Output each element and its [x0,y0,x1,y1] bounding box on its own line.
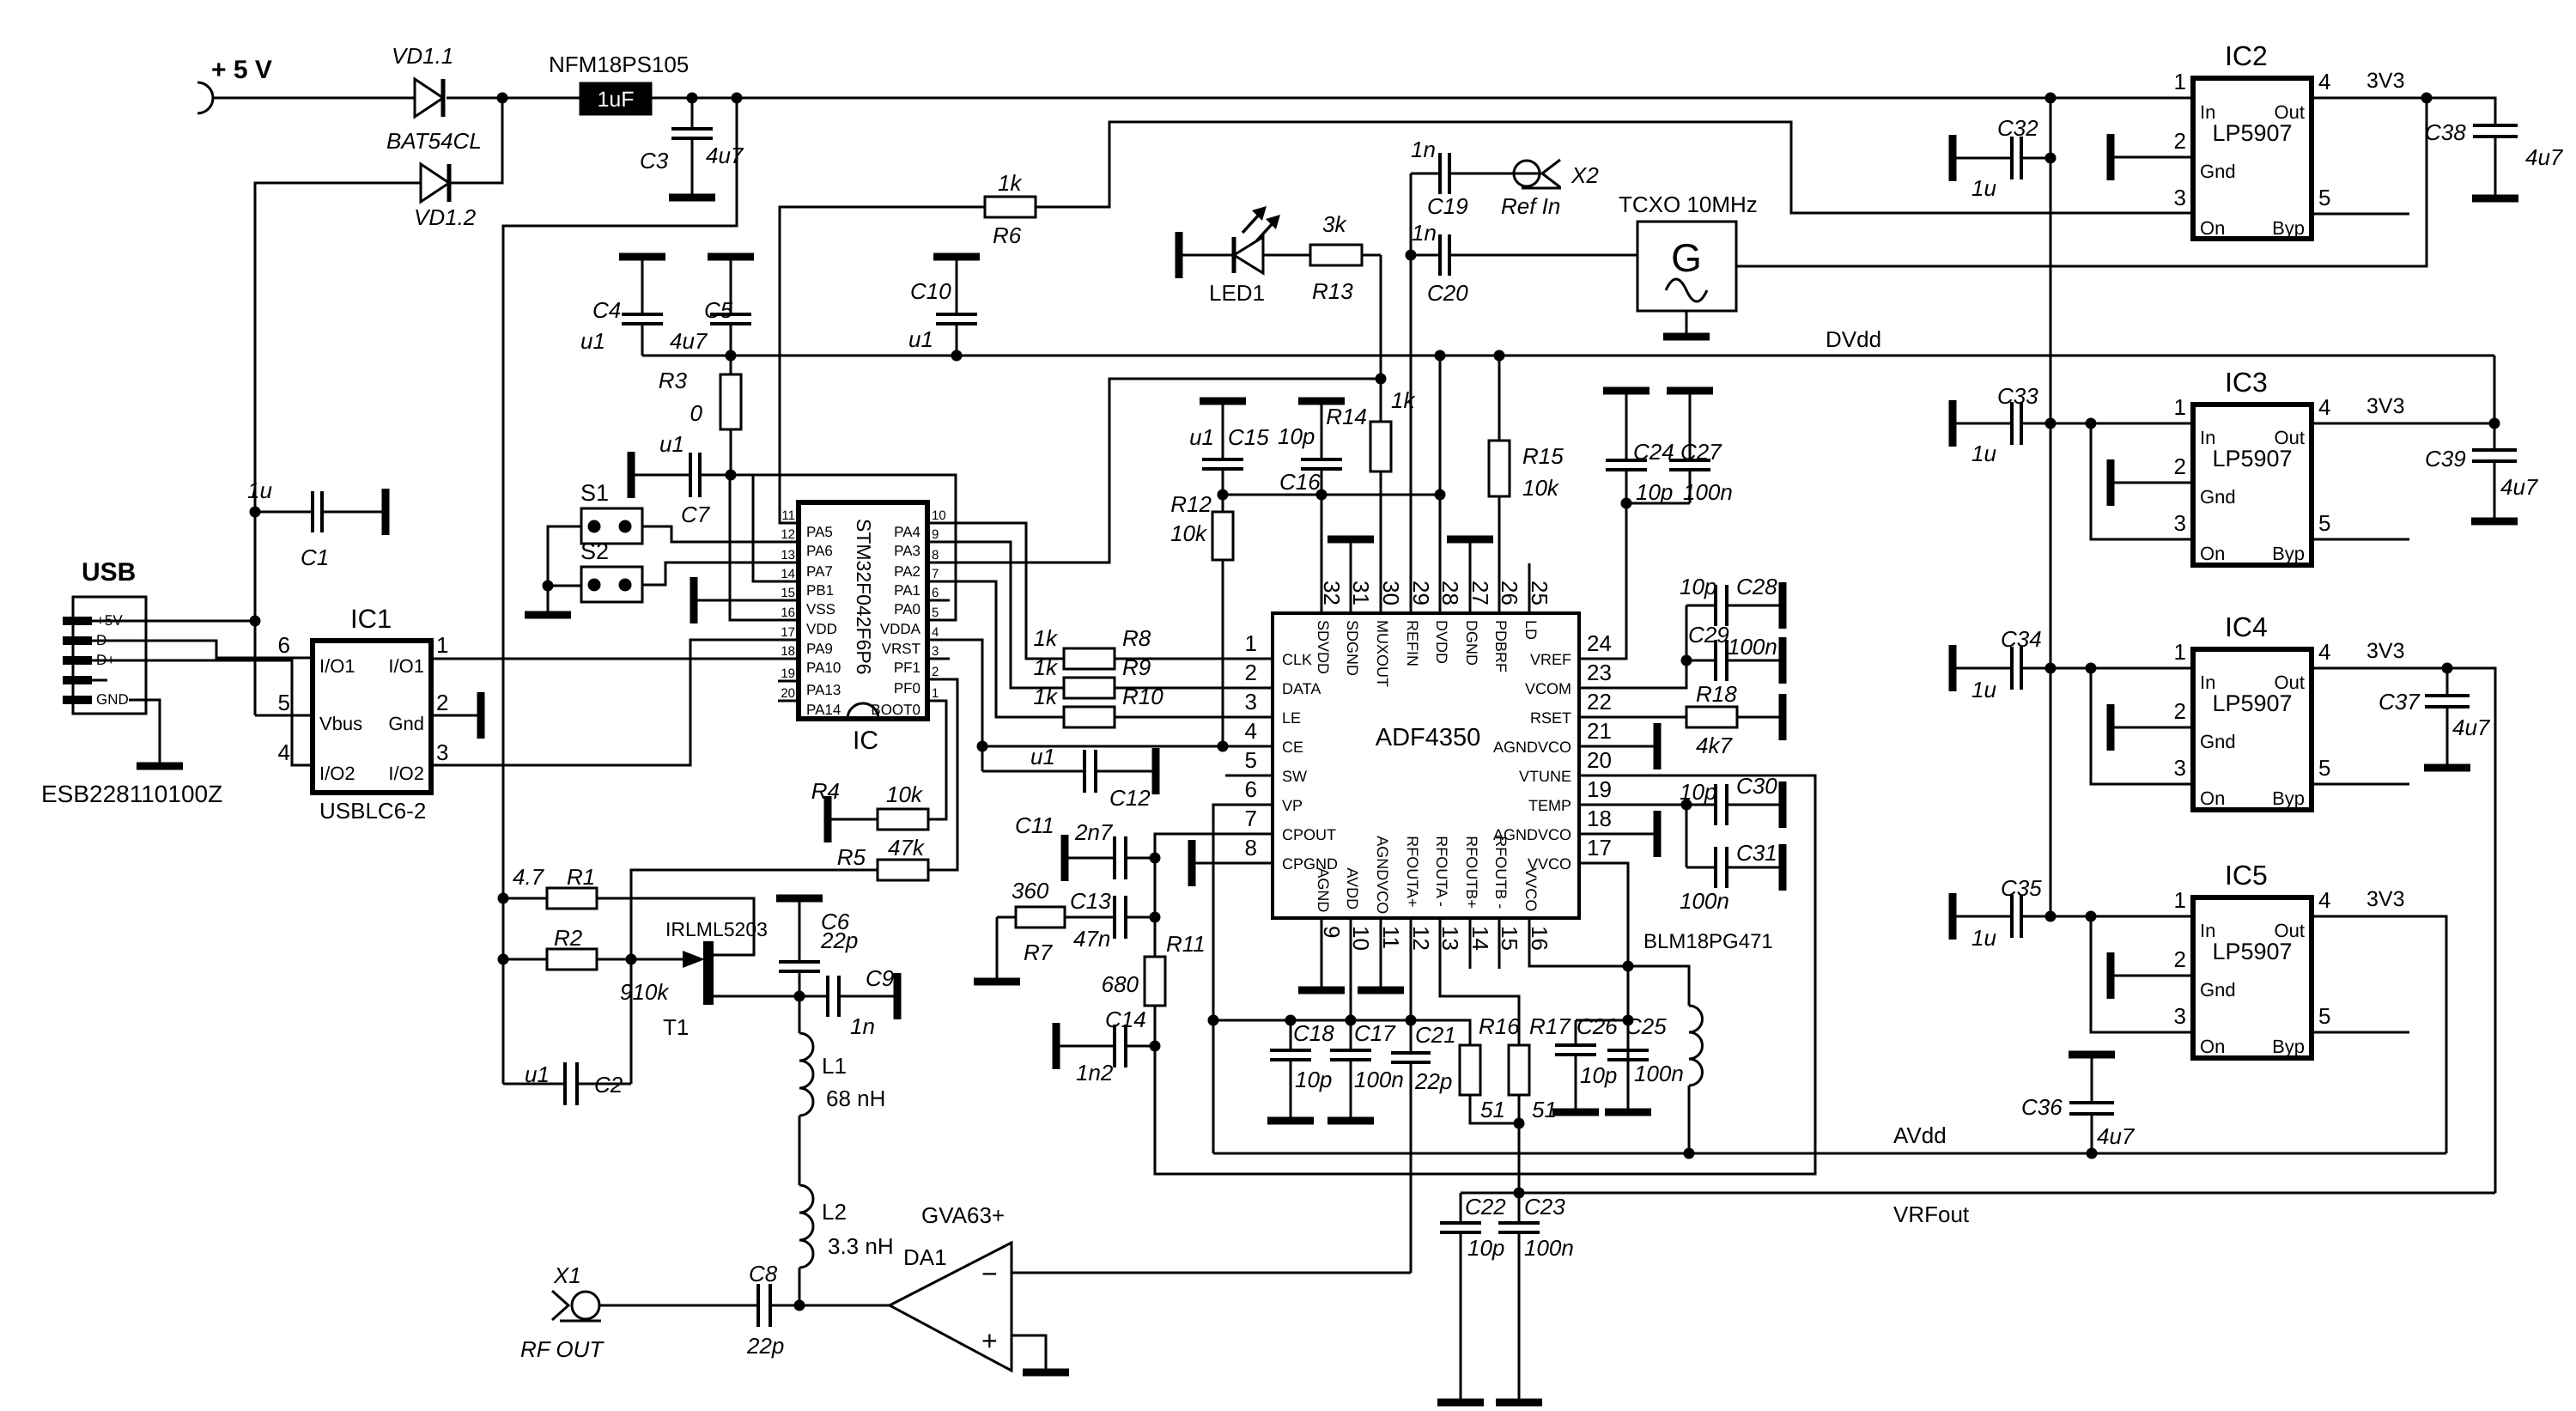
wire IC1 pin2 to ground [431,715,477,717]
wire DVdd rail [642,355,2494,357]
svg-text:RSET: RSET [1530,709,1571,727]
wire IC3 Byp stub [2312,538,2409,541]
svg-text:10p: 10p [1636,479,1673,505]
wire RFOUTA- pin13 to R17 [1440,918,1519,1045]
svg-text:17: 17 [781,625,795,640]
wire PA0 stub [927,599,950,602]
wire DA1 plus input to ground [1012,1335,1046,1370]
svg-text:BAT54CL: BAT54CL [386,128,482,154]
wire R10 to ADF LE [1115,716,1273,719]
svg-text:PA13: PA13 [806,682,841,698]
wire AVDD pin10 riser [1350,918,1352,1020]
svg-text:Gnd: Gnd [2200,486,2236,508]
svg-text:VSS: VSS [806,601,835,617]
svg-text:NFM18PS105: NFM18PS105 [549,52,689,77]
svg-text:GND: GND [96,691,129,708]
svg-text:VCOM: VCOM [1525,680,1571,697]
svg-text:PA14: PA14 [806,702,841,718]
switch S1 box [581,508,642,544]
svg-text:4: 4 [2318,394,2330,420]
ground above C5 [708,253,754,261]
svg-text:C30: C30 [1736,773,1777,799]
svg-text:R8: R8 [1122,625,1151,651]
svg-text:IC: IC [853,727,878,755]
svg-text:LED1: LED1 [1209,280,1265,306]
svg-text:C5: C5 [704,297,733,323]
node junction C24/C27 [1621,498,1632,509]
capacitor C30 [1686,804,1716,806]
svg-text:1: 1 [2174,639,2186,665]
wire SW stub pin5 [1225,775,1273,777]
svg-text:USBLC6-2: USBLC6-2 [319,798,426,824]
svg-text:LP5907: LP5907 [2212,120,2292,146]
svg-text:28: 28 [1437,581,1463,605]
wire USB GND to ground [129,700,160,764]
capacitor C14 [1058,1045,1115,1048]
svg-text:R15: R15 [1522,443,1564,469]
node junction gate [626,954,637,965]
svg-text:C39: C39 [2425,446,2466,471]
svg-text:2: 2 [932,665,939,679]
svg-text:On: On [2200,788,2225,809]
node junction C13 R11 [1150,912,1161,923]
wire +5V branch to R1/R2/C2 net [503,98,737,1084]
resistor R5 [878,860,928,880]
wire IC4 Out to VRFout riser [2312,668,2495,1193]
svg-text:+ 5 V: + 5 V [211,56,272,84]
svg-text:C36: C36 [2021,1094,2063,1120]
node junction R3/C7/VDD [726,470,737,481]
wire R18 to ground [1737,716,1779,719]
ground above C36 [2069,1051,2115,1059]
ground left of C14 [1053,1023,1060,1069]
wire RSET pin22 to R18 [1579,716,1686,719]
svg-text:IC2: IC2 [2225,40,2268,71]
ground below C23 [1496,1399,1542,1407]
wire IC3 In [2050,423,2193,425]
ground above C16 [1298,398,1345,405]
wire VTUNE pin20 loop [1155,775,1815,1174]
svg-text:PA7: PA7 [806,563,833,580]
svg-text:4: 4 [2318,69,2330,94]
svg-text:1n2: 1n2 [1076,1060,1114,1086]
svg-text:4: 4 [2318,639,2330,665]
wire RFOUTB- pin15 stub [1498,918,1501,969]
wire LED to R13 [1263,254,1310,257]
svg-text:9: 9 [932,527,939,542]
svg-text:PDBRF: PDBRF [1492,620,1510,672]
svg-text:Byp: Byp [2272,1036,2305,1057]
svg-text:VREF: VREF [1530,651,1571,668]
svg-text:R18: R18 [1696,681,1737,707]
wire T1 drain line [710,995,799,998]
svg-text:VDD: VDD [806,621,837,637]
svg-text:2n7: 2n7 [1074,819,1114,845]
svg-text:4u7: 4u7 [2097,1123,2136,1149]
amplifier DA1 GVA63+ [890,1243,1012,1371]
svg-text:4u7: 4u7 [670,328,708,354]
connector USB body [73,597,146,714]
svg-text:DATA: DATA [1282,680,1321,697]
svg-text:10p: 10p [1680,779,1716,805]
svg-text:1: 1 [2174,69,2186,94]
svg-text:3.3 nH: 3.3 nH [828,1233,894,1259]
svg-text:L1: L1 [822,1053,847,1079]
svg-text:S1: S1 [580,480,609,506]
svg-text:C21: C21 [1415,1022,1456,1048]
capacitor C9 [799,995,828,998]
svg-text:12: 12 [781,527,795,542]
capacitor C21 series [1391,1051,1431,1055]
svg-text:C13: C13 [1070,888,1111,914]
wire TCXO ground stem [1686,311,1688,335]
resistor R6 [985,197,1036,217]
svg-text:C27: C27 [1680,439,1722,465]
svg-text:LD: LD [1522,620,1540,640]
wire PF1 stub [927,658,950,660]
ground below C37 [2424,764,2470,772]
capacitor C34 [1949,645,1957,691]
node junction C36 on AVdd [2087,1148,2098,1159]
capacitor C7 [635,474,690,477]
wire LD stub pin25 [1528,563,1531,613]
capacitor C8 [747,1305,758,1307]
diode VD1.2 [421,164,449,202]
svg-text:14: 14 [781,567,795,581]
wire IC3 Out to DVdd [2312,423,2494,425]
IC IC2 LP5907 box [2193,78,2312,239]
svg-text:Vbus: Vbus [319,713,362,734]
svg-text:C35: C35 [2001,875,2042,901]
ground DA1 plus [1023,1369,1069,1377]
node junction C3 tap [687,93,698,104]
wire R13 to MUXOUT riser [1362,254,1381,257]
svg-text:1: 1 [436,632,448,658]
svg-text:1: 1 [2174,394,2186,420]
svg-text:PA2: PA2 [894,563,920,580]
svg-text:R11: R11 [1166,931,1206,957]
capacitor C2 [503,1083,565,1086]
ground left of R4 [824,796,832,842]
resistor R4 [878,809,928,830]
svg-text:AGND: AGND [1315,867,1332,912]
wire IC4 In [2050,667,2193,670]
resistor R14 [1370,422,1391,471]
svg-text:u1: u1 [580,328,605,354]
svg-text:5: 5 [1245,747,1257,773]
svg-text:1k: 1k [1391,387,1416,413]
svg-text:2: 2 [2174,128,2186,154]
svg-text:1k: 1k [1034,625,1059,651]
wire to DA1 input [799,1305,890,1307]
capacitor C4 [641,260,644,314]
svg-text:PA0: PA0 [894,601,920,617]
svg-text:LP5907: LP5907 [2212,939,2292,964]
ground above C4 [619,253,665,261]
svg-text:680: 680 [1102,971,1139,997]
wire CPGND pin8 to ground [1194,862,1273,865]
svg-text:L2: L2 [822,1199,847,1225]
svg-text:20: 20 [1587,747,1612,773]
svg-text:25: 25 [1527,581,1552,605]
ground above C15 [1200,398,1246,405]
svg-text:4u7: 4u7 [706,143,744,168]
svg-text:4k7: 4k7 [1696,733,1733,758]
wire AVdd rail [1213,1153,2446,1155]
wire R1 to T1 source [597,898,754,955]
svg-text:AVDD: AVDD [1344,867,1361,909]
node junction bead to AVdd [1684,1148,1695,1159]
wire S2 left [548,585,581,587]
svg-text:C18: C18 [1293,1020,1334,1046]
svg-text:u1: u1 [525,1061,550,1087]
node junction S2 left [543,581,554,592]
capacitor C16 [1321,404,1323,459]
svg-text:1n: 1n [850,1013,875,1039]
wire REFIN riser pin29 [1410,255,1413,613]
svg-text:ESB228110100Z: ESB228110100Z [41,781,222,807]
wire IC5 Out to AVdd riser [2312,916,2446,1153]
wire PF0 to R5 [927,679,957,870]
svg-text:IC4: IC4 [2225,611,2268,642]
svg-text:X2: X2 [1571,162,1599,188]
svg-text:32: 32 [1319,581,1345,605]
IC IC5 LP5907 box [2193,897,2312,1058]
svg-text:100n: 100n [1354,1067,1404,1092]
svg-text:SDGND: SDGND [1344,620,1361,676]
svg-text:C22: C22 [1465,1194,1506,1219]
svg-text:u1: u1 [908,326,933,352]
svg-text:R12: R12 [1170,491,1212,517]
svg-text:R17: R17 [1529,1013,1571,1039]
resistor R12 [1212,512,1233,560]
capacitor C23 [1518,1193,1521,1223]
svg-text:3V3: 3V3 [2366,887,2404,911]
wire IC3 On enable [2091,423,2193,539]
node junction C8 L2 DA1 [794,1300,805,1311]
svg-text:100n: 100n [1728,634,1777,660]
svg-text:7: 7 [932,567,939,581]
svg-text:SDVDD: SDVDD [1315,620,1332,674]
wire AGNDVCO pin18 to ground [1579,833,1654,836]
IC STM32F042F6P6 box [799,502,927,719]
svg-text:3: 3 [436,739,448,765]
svg-text:10k: 10k [1522,475,1560,501]
wire IC2 Byp stub [2312,213,2409,216]
svg-text:2: 2 [2174,698,2186,724]
capacitor C37 [2446,668,2449,696]
resistor R2 [498,954,509,965]
svg-text:On: On [2200,217,2225,239]
ground USB shell [137,763,183,770]
node junction R16 R17 [1514,1118,1525,1129]
capacitor C33 [1949,400,1957,447]
svg-text:R13: R13 [1312,278,1353,304]
svg-text:C15: C15 [1228,424,1269,450]
svg-text:4u7: 4u7 [2500,474,2539,500]
oscillator TCXO 10MHz box [1637,222,1736,311]
svg-text:C33: C33 [1997,383,2038,409]
svg-text:C14: C14 [1105,1007,1146,1032]
wire AGNDVCO pin21 to ground [1579,745,1654,748]
svg-text:10p: 10p [1295,1067,1332,1092]
svg-text:R2: R2 [554,925,583,951]
svg-text:5: 5 [2318,755,2330,781]
capacitor C1 [250,507,261,518]
wire VVCO pin17 riser [1579,863,1628,1060]
svg-text:R10: R10 [1122,684,1163,709]
svg-text:3: 3 [2174,510,2186,536]
svg-text:VVCO: VVCO [1522,867,1540,911]
svg-text:In: In [2200,101,2215,123]
svg-text:Out: Out [2275,101,2305,123]
ground IC1 pin2 [477,692,485,739]
ground below C17 [1327,1117,1374,1125]
svg-text:47k: 47k [888,835,926,861]
svg-text:PA3: PA3 [894,543,920,559]
svg-text:PA9: PA9 [806,641,833,657]
svg-text:5: 5 [932,605,939,620]
svg-text:22p: 22p [820,927,858,953]
resistor R17 [1509,1045,1529,1095]
svg-text:VRFout: VRFout [1893,1201,1970,1227]
capacitor C6 [799,902,801,962]
svg-text:3: 3 [2174,185,2186,210]
resistor R11 [1145,957,1165,1006]
svg-text:Ref In: Ref In [1501,193,1560,219]
svg-text:GVA63+: GVA63+ [921,1202,1005,1228]
svg-text:PB1: PB1 [806,582,834,599]
ground right of C1 [382,489,390,535]
svg-text:IRLML5203: IRLML5203 [665,918,768,940]
svg-text:AGNDVCO: AGNDVCO [1493,739,1571,756]
node junction CPOUT C11 [1150,853,1161,864]
LED LED1 [1181,254,1234,257]
wire PB1 riser [753,475,799,581]
svg-text:2: 2 [436,690,448,715]
svg-text:10p: 10p [1278,423,1315,449]
svg-text:On: On [2200,1036,2225,1057]
svg-text:C17: C17 [1354,1020,1396,1046]
svg-text:C19: C19 [1427,193,1468,219]
capacitor C18 [1290,1020,1292,1050]
IC U IC1 USBLC6-2 box [313,641,431,793]
ground right of C30 [1779,782,1787,828]
svg-text:2: 2 [2174,453,2186,479]
wire PA2 to R14 top line [927,379,1381,563]
wire S1 left to ground rail [548,526,581,612]
wire R2 to gate node [597,958,683,961]
svg-text:10k: 10k [1170,520,1208,546]
svg-text:Gnd: Gnd [2200,161,2236,182]
wire USB D- to IC1 pin6 [92,641,313,658]
pin USB contact D+ [63,656,92,665]
svg-text:C23: C23 [1524,1194,1565,1219]
svg-text:4u7: 4u7 [2452,715,2491,740]
svg-text:u1: u1 [1189,424,1214,450]
wire RFOUTA+ pin12 riser with C21 [1410,918,1413,1053]
svg-text:1u: 1u [1971,677,1996,702]
wire AGNDVCO pin11 to ground [1380,918,1382,988]
svg-text:2: 2 [1245,660,1257,685]
svg-text:29: 29 [1408,581,1434,605]
svg-text:5: 5 [2318,1003,2330,1029]
wire DA1 minus input from RFOUTA+ [1012,1272,1411,1274]
svg-text:18: 18 [781,644,795,659]
wire BOOT0 to R4 [927,701,946,819]
ground below C18 [1267,1117,1314,1125]
svg-text:C28: C28 [1736,574,1777,599]
svg-text:u1: u1 [1030,744,1055,769]
svg-text:C4: C4 [592,297,621,323]
svg-text:CLK: CLK [1282,651,1312,668]
inductor ferrite bead BLM18PG471 [1628,966,1689,1006]
svg-text:3: 3 [2174,1003,2186,1029]
svg-text:10p: 10p [1580,1062,1617,1088]
svg-text:In: In [2200,672,2215,693]
wire IC4 Gnd to ground [2114,727,2193,729]
ground SDGND pin31 [1327,536,1374,544]
svg-text:4u7: 4u7 [2525,144,2564,170]
svg-text:VD1.2: VD1.2 [414,204,477,230]
ground below C22 [1437,1399,1484,1407]
svg-text:R3: R3 [659,368,688,393]
svg-text:VD1.1: VD1.1 [392,43,453,69]
wire IC2 Out 3V3 [2312,98,2495,125]
inductor L1 68nH [799,996,801,1033]
svg-text:C29: C29 [1688,622,1729,648]
transistor T1 channel bar [703,941,714,1005]
wire IC4 On enable [2091,668,2193,784]
svg-text:2: 2 [2174,946,2186,972]
wire regulator input riser [2050,98,2052,916]
ground left of C11 [1061,835,1069,881]
svg-text:AVdd: AVdd [1893,1122,1947,1148]
wire R5 to T1 gate node [631,870,878,959]
svg-text:6: 6 [1245,776,1257,802]
svg-text:1u: 1u [1971,441,1996,466]
svg-text:1: 1 [932,686,939,701]
svg-text:910k: 910k [620,979,670,1005]
capacitor C25 [1627,1020,1630,1050]
svg-text:16: 16 [781,605,795,620]
svg-text:1u: 1u [1971,925,1996,951]
svg-text:1k: 1k [1034,684,1059,709]
svg-text:R6: R6 [993,222,1022,248]
svg-text:VDDA: VDDA [880,621,921,637]
svg-text:0: 0 [690,400,703,426]
svg-text:PA1: PA1 [894,582,920,599]
svg-text:17: 17 [1587,835,1612,861]
svg-text:AGNDVCO: AGNDVCO [1374,836,1391,914]
connector X2 Ref In [1503,173,1541,175]
capacitor C17 [1350,1020,1352,1050]
wire VVCO pin16 to bead node [1529,918,1628,966]
svg-text:PA10: PA10 [806,660,841,676]
ground AGNDVCO18 [1654,811,1662,857]
svg-text:11: 11 [781,508,795,523]
svg-text:I/O1: I/O1 [319,655,355,677]
svg-text:LE: LE [1282,709,1301,727]
wire VD1.2 cathode branch [449,98,502,183]
pin USB contact +5V [63,617,92,625]
svg-text:C31: C31 [1736,840,1777,866]
capacitor C13 [1065,916,1115,919]
svg-text:LP5907: LP5907 [2212,690,2292,716]
svg-text:10p: 10p [1467,1235,1504,1261]
svg-text:C24: C24 [1633,439,1674,465]
svg-text:I/O2: I/O2 [319,763,355,784]
